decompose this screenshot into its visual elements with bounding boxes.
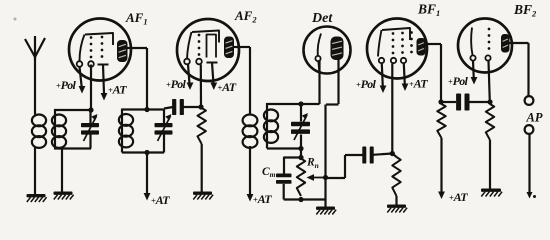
wire C5 to BF1 grid node [373, 154, 392, 155]
wire BF2 grid lead [489, 61, 490, 102]
tube BF1 grid dots 1 [392, 32, 395, 54]
label +AT (AF2) [218, 80, 237, 94]
svg-text:BF2: BF2 [513, 2, 537, 19]
coupling capacitor C5 [362, 147, 373, 164]
tube AF2 envelope [177, 19, 239, 81]
wire det output up [344, 155, 346, 178]
coil L3 tank2 [119, 109, 133, 153]
wire to Cm [284, 158, 301, 174]
wire AF1 grid lead [90, 65, 92, 111]
node det bottom [298, 197, 303, 202]
svg-text:AP: AP [526, 111, 543, 125]
wire BF1 plate to C6 [441, 101, 456, 103]
wire det tank right side [300, 104, 302, 149]
supply lead +AT (tank2) [144, 153, 151, 201]
wire BF1 plate out [426, 43, 442, 45]
coil L4 primary [243, 115, 258, 148]
svg-text:+AT: +AT [108, 83, 127, 97]
wire Cm to bottom node [283, 184, 285, 200]
tube Det filament line [318, 34, 321, 56]
node det tank top [298, 101, 303, 106]
label +Pol (BF1) [356, 77, 377, 91]
wire tank2 bottom [122, 151, 164, 153]
ground (antenna coil) [27, 194, 47, 202]
tube BF2 filament line [471, 28, 472, 56]
node BF1 grid [390, 151, 395, 156]
wire BF2 plate down [527, 43, 529, 96]
anode blob BF2 [501, 34, 510, 53]
label BF1 [417, 2, 440, 19]
wire L1 to ground [34, 148, 36, 195]
label Cm [262, 166, 276, 179]
node BF1 plate [438, 99, 443, 104]
wire R1 to ground [201, 144, 203, 192]
svg-text:+Pol: +Pol [448, 74, 469, 88]
svg-text:+Pol: +Pol [56, 78, 77, 92]
resistor R4 plate load [437, 104, 445, 138]
supply arrow +AT (AF2) [210, 63, 217, 91]
wire det plate bend [326, 103, 339, 105]
tube BF2 grid dots [488, 28, 491, 50]
tube AF2 terminal b [196, 59, 202, 65]
svg-text:AF1: AF1 [125, 10, 148, 27]
tube Det envelope [304, 27, 351, 74]
wire det output right [326, 177, 346, 179]
wire tank2 right side [163, 110, 165, 153]
wire antenna lead-in [34, 57, 36, 115]
label +AT (tank2) [151, 193, 170, 207]
wire det tank top [267, 103, 301, 105]
tube AF2 terminal a [184, 59, 190, 65]
terminal AP upper [525, 96, 534, 105]
variable capacitor C1 [81, 114, 99, 141]
label AP [526, 111, 543, 125]
bias arrow +Pol (AF2) [187, 64, 194, 90]
tube AF2 plate top bar [192, 31, 219, 43]
tube AF2 cathode tee [207, 62, 218, 64]
coil L2 tuned secondary [52, 109, 66, 149]
tube AF1 grid dots 2 [101, 36, 104, 58]
tube AF1 plate top bar [85, 33, 113, 45]
node AF2 grid [198, 104, 203, 109]
ground (tank1) [54, 192, 74, 200]
tube BF1 terminal a [379, 58, 384, 63]
svg-text:+AT: +AT [218, 80, 237, 94]
arrow AP return [527, 192, 533, 199]
svg-text:+Pol: +Pol [166, 77, 187, 91]
bias arrow +Pol (BF2) [471, 61, 478, 85]
svg-text:AF2: AF2 [234, 8, 257, 25]
tube BF2 terminal a [470, 55, 475, 60]
wire AF2 plate out [234, 46, 250, 48]
resistor R3 grid leak BF1 [392, 154, 400, 197]
tube BF1 filament line [378, 30, 382, 57]
resistor R2 grid leak det [297, 159, 305, 197]
wire C3 to AF2 grid node [183, 106, 201, 108]
antenna [25, 36, 45, 60]
coupling capacitor C6 [456, 94, 469, 111]
node tank2 top [144, 107, 149, 112]
wire R5 to ground [489, 140, 491, 189]
variable capacitor C2 [155, 114, 173, 141]
label +AT (AF1) [108, 83, 127, 97]
label +Pol (AF1) [56, 78, 77, 92]
ground (R3) [387, 205, 407, 213]
label +AT (R4) [449, 190, 468, 204]
node AP dot [533, 195, 536, 198]
node det output [323, 175, 328, 180]
wire AF1 plate out [128, 47, 148, 49]
wire tank2 to C3 [164, 107, 173, 109]
supply arrow +AT (R4) [438, 192, 445, 200]
label +AT (L4) [253, 192, 272, 206]
svg-text:+AT: +AT [151, 193, 170, 207]
node BF2 grid [487, 99, 492, 104]
wire det grid lead [318, 61, 320, 105]
label Det [311, 11, 333, 26]
tube BF1 plate top bar [382, 28, 410, 40]
wire AF1 plate down [146, 48, 148, 110]
wire det ground stem [324, 200, 326, 207]
tube BF2 terminal b [485, 55, 490, 60]
tube AF1 cathode tee [98, 64, 109, 66]
svg-text:+Pol: +Pol [356, 77, 377, 91]
label AF2 [234, 8, 257, 25]
wire tank1 right side [89, 110, 91, 149]
supply arrow +AT (BF1) [402, 64, 409, 92]
tube BF1 envelope [367, 19, 427, 79]
tube AF1 envelope [69, 19, 131, 81]
anode blob BF1 [417, 38, 426, 56]
wire det plate down [337, 59, 339, 104]
svg-text:+AT: +AT [253, 192, 272, 206]
node tank2 bottom [144, 150, 149, 155]
node grid AF1 / tank top [88, 107, 93, 112]
resistor R5 grid leak BF2 [486, 104, 494, 140]
anode blob AF2 [224, 37, 234, 59]
tube AF1 terminal b [88, 61, 94, 67]
tube Det terminal [315, 56, 320, 61]
node det tank bottom [298, 146, 303, 151]
wire to C5 [345, 154, 363, 156]
tube BF1 terminal b [391, 58, 396, 63]
wire tank1 bottom [54, 147, 91, 149]
wire det plate vertical [324, 105, 326, 200]
tube BF1 grid dots 3 [410, 31, 413, 53]
tap arrow to R2 [307, 174, 325, 181]
anode blob Det [331, 37, 344, 61]
paper speck 1 [14, 18, 17, 21]
wire AP return [528, 134, 530, 193]
label +AT (BF1) [409, 77, 428, 91]
wire tank2 top [122, 108, 164, 110]
node grid leak top [298, 155, 303, 160]
tube AF2 inner box [207, 35, 217, 58]
label AF1 [125, 10, 148, 27]
svg-text:+AT: +AT [409, 77, 428, 91]
tube BF1 grid dots 2 [401, 32, 404, 54]
label +Pol (AF2) [166, 77, 187, 91]
terminal AP lower [525, 125, 534, 134]
coupling capacitor C3 [172, 99, 184, 115]
wire tank bottom to node [300, 149, 302, 158]
svg-text:BF1: BF1 [417, 2, 440, 19]
wire tank1 top [54, 109, 91, 111]
supply arrow +AT (AF1) [101, 65, 108, 101]
tube AF1 grid dots 1 [90, 36, 93, 58]
wire C6 to BF2 grid node [470, 101, 491, 103]
coil L1 antenna primary [32, 115, 46, 148]
ground (R1) [193, 192, 213, 200]
ground (R5) [481, 189, 502, 197]
wire det bottom node [284, 198, 326, 200]
tube BF2 envelope [458, 19, 512, 73]
wire AF2 grid lead [200, 65, 202, 108]
ground (det) [316, 207, 336, 215]
svg-text:Rn: Rn [306, 157, 319, 171]
supply lead +AT (L4) [247, 146, 254, 202]
svg-text:Det: Det [311, 11, 333, 26]
bias arrow +Pol (AF1) [79, 67, 86, 94]
label +Pol (BF2) [448, 74, 469, 88]
wire Det grid inside [319, 61, 320, 72]
variable capacitor C4 [291, 113, 310, 140]
tube AF1 filament line [80, 35, 85, 62]
label BF2 [513, 2, 537, 19]
wire AF2 plate down [249, 47, 251, 115]
anode blob AF1 [117, 40, 128, 62]
tube AF2 grid dots 1 [198, 34, 201, 56]
wire det tank bottom [267, 147, 301, 149]
tube BF1 terminal c [401, 58, 406, 63]
tube AF2 filament line [187, 32, 192, 59]
wire BF2 plate out [510, 42, 529, 44]
wire tank to det grid [301, 103, 320, 105]
capacitor Cm [276, 174, 292, 184]
wire tank1 to ground [61, 149, 63, 192]
coil L5 det secondary [264, 103, 278, 149]
label R2 [306, 157, 319, 171]
wire R4 to +AT [440, 138, 442, 192]
wire BF1 plate down [440, 44, 442, 102]
wire R3 to ground [395, 196, 397, 205]
svg-text:+AT: +AT [449, 190, 468, 204]
wire BF1 grid lead [391, 64, 393, 154]
tube AF1 terminal a [77, 61, 83, 67]
resistor R1 grid leak AF2 [198, 108, 206, 144]
bias arrow +Pol (BF1) [380, 64, 387, 94]
svg-text:Cm: Cm [262, 166, 276, 179]
